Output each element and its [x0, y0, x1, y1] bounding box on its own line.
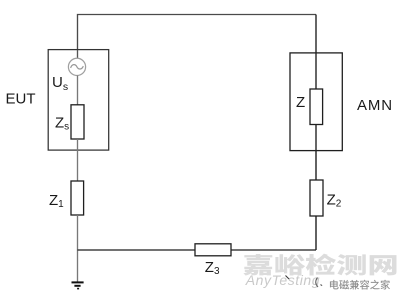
wire top loop [78, 15, 317, 51]
watermark 嘉峪检测网 [243, 254, 396, 276]
resistor Zs [71, 105, 84, 139]
wire right drop [315, 15, 317, 54]
svg-text:EUT: EUT [6, 90, 36, 107]
wire AMN bottom [315, 125, 317, 151]
svg-text:AnyTesting: AnyTesting [245, 272, 320, 288]
wire Z2 to AMN [315, 151, 317, 180]
wire bottom right [231, 249, 316, 251]
wire Z2 bottom [315, 216, 317, 250]
AMN box [290, 53, 342, 151]
source U_s circle [68, 58, 85, 75]
wire Z1 to ground [77, 215, 79, 282]
resistor Z1 [71, 181, 84, 215]
watermark 电磁兼容之家 [330, 280, 390, 290]
wire box top to source [77, 50, 79, 59]
resistor Z3 [195, 244, 231, 256]
svg-text:Z: Z [296, 94, 305, 111]
wire source to Zs [77, 76, 79, 106]
svg-text:AMN: AMN [357, 97, 393, 114]
stray tick mark [286, 276, 290, 280]
ground [72, 282, 84, 288]
wire Zs to Z1 [77, 139, 79, 181]
wire bottom left [78, 249, 196, 251]
stray bracket mark [316, 278, 322, 288]
EUT box [48, 50, 108, 151]
resistor Z (AMN) [310, 89, 323, 125]
resistor Z2 [310, 180, 323, 216]
wire AMN top [315, 53, 317, 89]
